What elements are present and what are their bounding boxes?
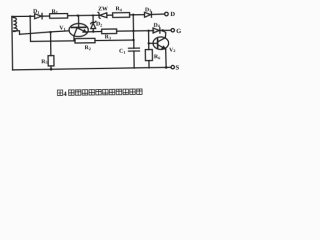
- transistor V2: [153, 31, 169, 68]
- svg-text:D1: D1: [33, 9, 39, 15]
- wire: vertical x133.6 top rail to R2 rail: [132, 15, 134, 40]
- wire: coil bottom jog: [13, 31, 19, 34]
- terminal G: [171, 29, 174, 32]
- node: junction x30.5: [29, 15, 31, 17]
- wire: base rail to V1: [19, 31, 69, 34]
- diode D3: [145, 12, 165, 18]
- svg-text:C1: C1: [119, 49, 125, 55]
- svg-text:R2: R2: [85, 45, 91, 51]
- terminal D: [165, 12, 169, 16]
- svg-text:D3: D3: [145, 7, 151, 13]
- wire: R4 to D3: [130, 14, 145, 16]
- diode D1: [35, 13, 50, 19]
- wire: R6 to bottom rail: [148, 61, 150, 68]
- transistor V1: [69, 15, 89, 40]
- node: junction V2 base column: [147, 30, 149, 32]
- svg-text:D4: D4: [154, 23, 160, 29]
- caption: 图4 肖特基管的驱动保护电路 (fake CJK glyphs): [57, 90, 62, 95]
- resistor R3: [102, 29, 117, 34]
- svg-text:D2: D2: [96, 22, 102, 28]
- svg-text:ZW: ZW: [98, 6, 108, 12]
- wire: top rail R1 to ZW: [68, 14, 99, 16]
- svg-text:G: G: [176, 28, 181, 35]
- wire: R2 rail to C1: [95, 39, 134, 42]
- svg-text:R6: R6: [154, 54, 160, 60]
- resistor R6: [145, 50, 152, 61]
- terminal S: [171, 65, 174, 68]
- transformer winding T: [13, 17, 17, 31]
- zener ZW: [98, 12, 113, 18]
- svg-text:V1: V1: [59, 25, 65, 31]
- node: R5 top junction: [49, 31, 51, 33]
- wire: vertical R6 column: [148, 31, 150, 50]
- wire: V2 base: [149, 42, 158, 44]
- svg-text:V2: V2: [169, 47, 175, 53]
- svg-text:R5: R5: [41, 59, 47, 65]
- diode D4: [153, 28, 171, 34]
- wire: top rail segment coil to D1: [12, 15, 34, 17]
- node: junction V1 collector: [77, 14, 79, 16]
- svg-text:R4: R4: [116, 6, 122, 12]
- node: R5 bottom junction: [50, 68, 53, 71]
- wire: R3 to D4: [117, 30, 154, 32]
- wire: left vertical border: [11, 16, 14, 69]
- resistor R4: [113, 13, 130, 18]
- resistor R2: [75, 38, 95, 43]
- resistor R5: [48, 32, 54, 69]
- node: junction top right: [132, 14, 134, 16]
- node: junction C1 top: [132, 39, 134, 41]
- svg-text:D: D: [170, 11, 175, 18]
- node: junction D4 cathode: [161, 29, 164, 32]
- wire: bottom rail to S: [13, 67, 171, 70]
- node: emitter to bottom rail: [165, 66, 168, 69]
- svg-text:R1: R1: [52, 9, 58, 15]
- resistor R1: [50, 14, 68, 19]
- svg-text:4: 4: [63, 91, 67, 98]
- capacitor C1: [128, 40, 139, 68]
- wire: vertical from top rail to R2 rail: [30, 16, 75, 42]
- node: D2 top: [92, 14, 94, 16]
- node: V2 base junction: [148, 42, 150, 44]
- svg-text:R3: R3: [105, 34, 111, 40]
- wire: G rail from V1 emitter: [86, 30, 102, 33]
- node: junction x133.6 on G rail: [132, 30, 134, 32]
- node: D2 bottom junction: [92, 30, 94, 32]
- zener D2: [91, 15, 96, 31]
- svg-text:S: S: [176, 65, 180, 72]
